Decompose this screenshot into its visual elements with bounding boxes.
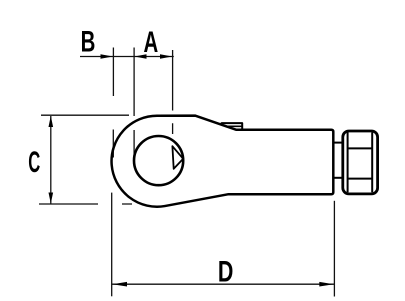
tab (latch plate) top xyxy=(220,123,242,130)
arrow A left xyxy=(134,54,146,58)
label D xyxy=(218,254,233,289)
dimension line C vertical xyxy=(50,116,52,204)
svg-text:C: C xyxy=(28,146,40,179)
extension/center line right xyxy=(172,50,174,134)
extension line D left xyxy=(111,193,113,297)
neck top line xyxy=(333,142,343,144)
dimension line top (B/A) xyxy=(80,56,174,58)
label B xyxy=(81,26,96,59)
arrow C down xyxy=(49,193,54,204)
dimension line D xyxy=(112,283,335,285)
extension line C top xyxy=(41,114,129,116)
arrow D right xyxy=(319,282,334,287)
wedge notch xyxy=(172,146,183,169)
nut facet line right xyxy=(371,133,373,193)
extension line C bottom xyxy=(39,203,132,205)
hex nut outline xyxy=(343,131,378,194)
label A xyxy=(144,26,159,59)
body outline (eye + shank) xyxy=(112,116,334,207)
neck bottom line xyxy=(333,177,343,179)
extension line D right xyxy=(333,201,335,297)
arrow D left xyxy=(112,282,127,287)
arrow B right xyxy=(101,54,114,58)
nut chamfer line bottom xyxy=(348,178,373,180)
arrow C up xyxy=(49,116,54,127)
nut facet line left xyxy=(347,133,349,193)
svg-text:A: A xyxy=(144,26,159,59)
svg-text:D: D xyxy=(218,254,233,289)
extension line body left edge xyxy=(112,48,114,158)
tab bottom line xyxy=(226,125,242,127)
nut chamfer line top xyxy=(348,147,373,149)
label C xyxy=(28,146,40,179)
arrow A right xyxy=(160,54,172,58)
extension line hole left edge xyxy=(133,48,135,162)
svg-text:B: B xyxy=(81,26,96,59)
hole circle xyxy=(134,136,183,185)
